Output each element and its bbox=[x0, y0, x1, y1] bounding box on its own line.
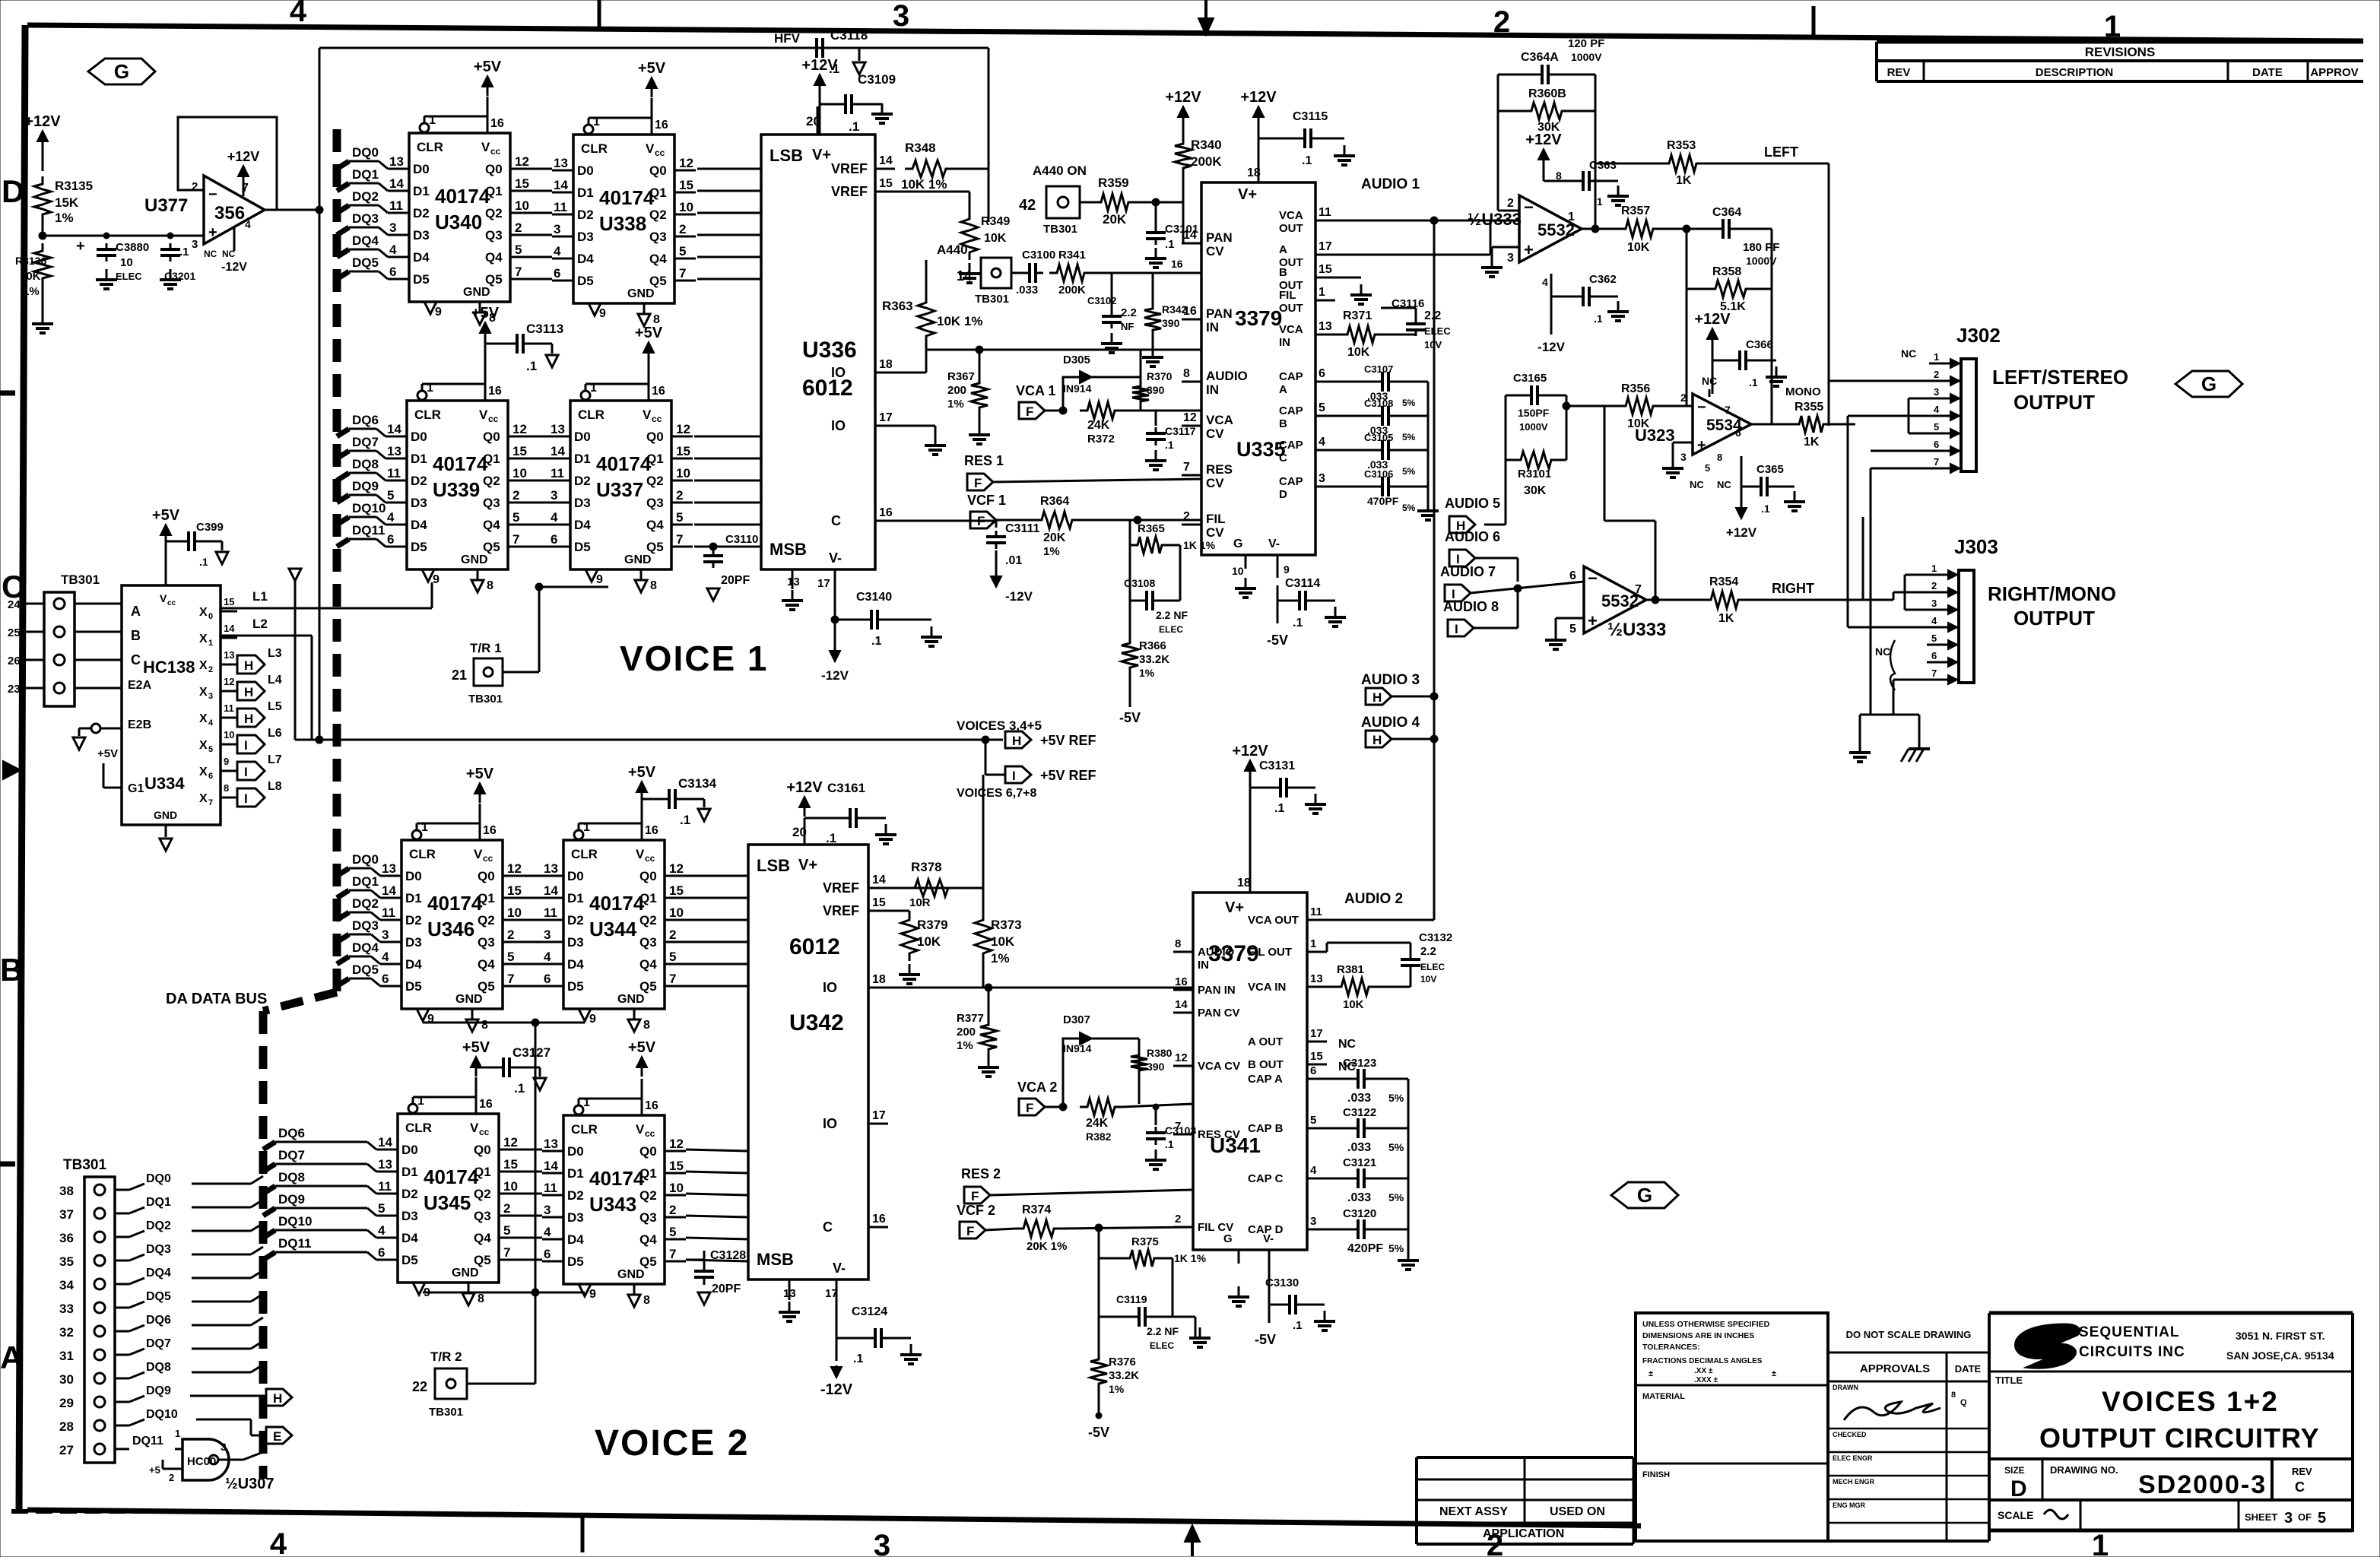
svg-text:FINISH: FINISH bbox=[1642, 1470, 1670, 1479]
svg-text:-12V: -12V bbox=[821, 668, 849, 683]
svg-text:13: 13 bbox=[382, 861, 396, 876]
svg-text:.01: .01 bbox=[1005, 554, 1022, 567]
svg-text:VREF: VREF bbox=[831, 161, 868, 176]
svg-text:9: 9 bbox=[435, 306, 442, 319]
power +5V U343 bbox=[628, 1039, 656, 1077]
svg-text:R377: R377 bbox=[957, 1012, 984, 1025]
svg-text:5: 5 bbox=[1310, 1114, 1316, 1127]
svg-text:D3: D3 bbox=[567, 935, 584, 950]
svg-text:Q4: Q4 bbox=[639, 957, 657, 972]
svg-text:14: 14 bbox=[378, 1135, 392, 1150]
svg-text:10K: 10K bbox=[917, 934, 941, 949]
svg-text:D0: D0 bbox=[405, 869, 422, 883]
wire DQ10 to flag E bbox=[115, 1408, 292, 1444]
svg-text:R349: R349 bbox=[981, 215, 1010, 228]
svg-text:6: 6 bbox=[551, 532, 557, 547]
capacitor C3161 .1 bbox=[804, 781, 896, 845]
svg-text:R355: R355 bbox=[1795, 401, 1823, 414]
flag VCF 1 bbox=[967, 493, 1034, 528]
power +5V U346 bbox=[466, 766, 494, 803]
svg-text:RES 2: RES 2 bbox=[961, 1166, 1001, 1181]
centerline arrow top bbox=[1198, 0, 1214, 35]
svg-text:NC: NC bbox=[1690, 479, 1704, 490]
resistor R378 10R bbox=[888, 860, 983, 909]
svg-text:U335: U335 bbox=[1236, 438, 1286, 461]
svg-text:18: 18 bbox=[1237, 877, 1251, 889]
capacitor C3128 20PF bbox=[686, 1249, 746, 1305]
flag AUDIO 3 bbox=[1361, 672, 1438, 705]
svg-text:5: 5 bbox=[1319, 401, 1325, 414]
svg-text:DQ5: DQ5 bbox=[352, 962, 379, 977]
power +5V U344 bbox=[628, 764, 656, 804]
power +12V U333a bbox=[1525, 132, 1562, 182]
svg-text:NC: NC bbox=[204, 249, 217, 259]
svg-text:±: ± bbox=[1772, 1369, 1776, 1378]
svg-text:1: 1 bbox=[1319, 286, 1325, 299]
svg-text:D2: D2 bbox=[401, 1187, 418, 1201]
svg-text:A OUT: A OUT bbox=[1248, 1035, 1283, 1048]
svg-text:GND: GND bbox=[452, 1267, 479, 1280]
svg-text:1: 1 bbox=[590, 382, 597, 395]
svg-text:3: 3 bbox=[389, 220, 396, 235]
svg-text:CLR: CLR bbox=[578, 407, 605, 422]
svg-text:VOICES 1+2: VOICES 1+2 bbox=[2102, 1386, 2279, 1417]
svg-text:21: 21 bbox=[452, 668, 467, 683]
svg-text:Q4: Q4 bbox=[478, 957, 495, 972]
label LEFT/STEREO OUTPUT bbox=[1992, 366, 2128, 414]
wires output bundle to J302 bbox=[1829, 381, 1929, 715]
svg-text:AUDIO: AUDIO bbox=[1206, 369, 1248, 383]
svg-text:CV: CV bbox=[1206, 476, 1224, 490]
svg-text:T/R 1: T/R 1 bbox=[470, 641, 502, 655]
svg-text:11: 11 bbox=[378, 1179, 392, 1194]
svg-text:CLR: CLR bbox=[409, 847, 436, 861]
svg-text:R375: R375 bbox=[1131, 1235, 1159, 1248]
svg-text:14: 14 bbox=[554, 178, 568, 192]
svg-text:DQ10: DQ10 bbox=[146, 1408, 178, 1421]
power +5V U334 bbox=[152, 507, 180, 564]
svg-text:16: 16 bbox=[645, 824, 658, 837]
svg-text:4: 4 bbox=[389, 243, 397, 257]
IC U340 hex latch 40174 bbox=[388, 97, 532, 325]
svg-text:NC: NC bbox=[1717, 479, 1731, 490]
svg-text:.1: .1 bbox=[1165, 1138, 1174, 1150]
capacitor C3880 10 ELEC bbox=[76, 238, 149, 289]
flag VOICES 6 7 8 bbox=[957, 766, 1096, 800]
wire U377 feedback box bbox=[178, 117, 277, 210]
svg-text:G: G bbox=[1637, 1184, 1652, 1207]
svg-text:33.2K: 33.2K bbox=[1109, 1369, 1139, 1382]
IC U334 decoder HC138 bbox=[122, 564, 237, 851]
svg-text:R354: R354 bbox=[1709, 576, 1738, 588]
svg-text:1: 1 bbox=[208, 639, 213, 648]
resistor R370 390 bbox=[1132, 370, 1173, 409]
svg-text:APPROVALS: APPROVALS bbox=[1860, 1362, 1930, 1375]
svg-text:cc: cc bbox=[167, 599, 176, 607]
svg-text:5: 5 bbox=[515, 243, 522, 257]
capacitor C3110 20PF bbox=[703, 533, 758, 601]
svg-text:12: 12 bbox=[512, 422, 527, 436]
svg-text:10K: 10K bbox=[1627, 241, 1650, 254]
capacitor C364 180PF bbox=[1687, 206, 1779, 289]
svg-text:GND: GND bbox=[627, 287, 655, 300]
capacitor C365 .1 bbox=[1741, 456, 1805, 515]
svg-text:1: 1 bbox=[1568, 211, 1575, 224]
svg-text:9: 9 bbox=[599, 307, 606, 320]
svg-text:4: 4 bbox=[245, 218, 251, 230]
svg-text:VREF: VREF bbox=[823, 903, 859, 918]
svg-text:D1: D1 bbox=[411, 452, 427, 466]
resistor R354 1K bbox=[1703, 517, 1863, 625]
svg-text:R379: R379 bbox=[917, 918, 948, 932]
svg-text:DQ3: DQ3 bbox=[352, 211, 379, 226]
svg-text:F: F bbox=[966, 1224, 974, 1238]
svg-text:Q: Q bbox=[1960, 1398, 1967, 1407]
svg-text:DQ2: DQ2 bbox=[352, 189, 379, 204]
ground U342 pin13 bbox=[779, 1302, 800, 1321]
svg-text:2.2 NF: 2.2 NF bbox=[1156, 609, 1188, 621]
svg-text:2.2 NF: 2.2 NF bbox=[1147, 1325, 1179, 1337]
svg-text:E2A: E2A bbox=[128, 679, 152, 692]
zone label C bbox=[2, 569, 24, 604]
svg-text:cc: cc bbox=[490, 146, 501, 157]
svg-text:2: 2 bbox=[503, 1201, 510, 1216]
svg-text:DQ9: DQ9 bbox=[146, 1384, 171, 1397]
svg-text:10V: 10V bbox=[1420, 974, 1436, 985]
svg-text:10: 10 bbox=[512, 466, 527, 480]
svg-text:NEXT ASSY: NEXT ASSY bbox=[1439, 1505, 1508, 1518]
label NC U323 top bbox=[1702, 375, 1717, 397]
svg-text:CHECKED: CHECKED bbox=[1833, 1431, 1867, 1438]
svg-text:DQ0: DQ0 bbox=[146, 1172, 171, 1185]
svg-text:VCA CV: VCA CV bbox=[1198, 1060, 1240, 1073]
flag VCF 2 bbox=[957, 1203, 1016, 1238]
svg-text:+5V: +5V bbox=[97, 747, 118, 760]
svg-text:G1: G1 bbox=[128, 782, 144, 795]
svg-text:1: 1 bbox=[1934, 351, 1939, 363]
power +5V U337 bbox=[635, 325, 663, 364]
label DQ data bus bbox=[166, 991, 267, 1007]
svg-text:VCA: VCA bbox=[1279, 209, 1303, 222]
svg-text:CAP C: CAP C bbox=[1248, 1172, 1284, 1185]
svg-text:VCF 2: VCF 2 bbox=[957, 1203, 995, 1218]
svg-text:16: 16 bbox=[488, 385, 502, 398]
svg-text:12: 12 bbox=[679, 156, 693, 170]
svg-text:SAN JOSE,CA. 95134: SAN JOSE,CA. 95134 bbox=[2226, 1349, 2334, 1362]
svg-text:R342: R342 bbox=[1162, 303, 1188, 316]
terminal A440 ON bbox=[1019, 163, 1093, 236]
svg-text:H: H bbox=[244, 712, 253, 726]
svg-text:C365: C365 bbox=[1756, 463, 1784, 476]
svg-text:1K: 1K bbox=[1804, 436, 1820, 449]
capacitor C3114 .1 bbox=[1277, 577, 1346, 629]
svg-text:5: 5 bbox=[676, 510, 683, 525]
wire U333a feedback bbox=[1498, 75, 1595, 229]
svg-text:5: 5 bbox=[208, 745, 213, 754]
svg-text:C3121: C3121 bbox=[1343, 1156, 1376, 1169]
svg-text:V: V bbox=[636, 847, 645, 861]
svg-text:4: 4 bbox=[1310, 1164, 1317, 1177]
svg-text:2: 2 bbox=[507, 928, 514, 942]
svg-text:AUDIO 5: AUDIO 5 bbox=[1445, 496, 1500, 511]
svg-text:7: 7 bbox=[512, 532, 519, 547]
svg-text:6: 6 bbox=[1735, 427, 1741, 439]
svg-text:DATE: DATE bbox=[1955, 1363, 1982, 1375]
svg-text:15K: 15K bbox=[55, 195, 79, 210]
svg-text:VCA IN: VCA IN bbox=[1248, 981, 1286, 994]
svg-text:4: 4 bbox=[290, 0, 307, 28]
svg-text:CIRCUITS INC: CIRCUITS INC bbox=[2079, 1344, 2185, 1360]
svg-text:.XXX ±: .XXX ± bbox=[1694, 1376, 1718, 1384]
svg-text:V-: V- bbox=[1268, 537, 1280, 550]
svg-text:470PF: 470PF bbox=[1367, 495, 1399, 507]
svg-text:U342: U342 bbox=[789, 1010, 844, 1035]
svg-text:REV: REV bbox=[2292, 1466, 2312, 1477]
IC U343 hex latch 40174 bbox=[542, 1079, 686, 1307]
power +12V U341 bbox=[1232, 743, 1268, 871]
resistor R375 1K 1% bbox=[1099, 1228, 1207, 1317]
zone label top 4 bbox=[290, 0, 307, 28]
svg-text:2: 2 bbox=[1934, 369, 1939, 380]
svg-text:cc: cc bbox=[655, 147, 665, 158]
svg-text:VCA 2: VCA 2 bbox=[1017, 1080, 1057, 1095]
svg-text:Q3: Q3 bbox=[646, 496, 664, 510]
svg-text:C3165: C3165 bbox=[1513, 372, 1547, 385]
svg-text:Q4: Q4 bbox=[474, 1231, 491, 1245]
svg-text:.1: .1 bbox=[1165, 439, 1174, 451]
svg-text:3: 3 bbox=[382, 928, 389, 942]
earth ground J303 bbox=[1893, 715, 1930, 762]
svg-text:14: 14 bbox=[544, 1159, 558, 1173]
svg-text:13: 13 bbox=[1310, 972, 1323, 985]
svg-text:.1: .1 bbox=[1165, 238, 1175, 251]
svg-text:15: 15 bbox=[512, 444, 527, 458]
svg-text:ENG MGR: ENG MGR bbox=[1833, 1502, 1866, 1509]
svg-text:1000V: 1000V bbox=[1519, 421, 1548, 433]
svg-text:R363: R363 bbox=[882, 299, 913, 313]
svg-text:.1: .1 bbox=[1594, 312, 1603, 325]
svg-text:C3134: C3134 bbox=[678, 776, 717, 791]
svg-text:17: 17 bbox=[872, 1109, 886, 1122]
svg-text:.1: .1 bbox=[514, 1081, 525, 1096]
label RIGHT/MONO OUTPUT bbox=[1988, 582, 2116, 629]
svg-text:J303: J303 bbox=[1954, 535, 1998, 558]
svg-text:+5V REF: +5V REF bbox=[1040, 768, 1096, 783]
wire VREF node bbox=[954, 48, 988, 222]
svg-text:15: 15 bbox=[515, 176, 529, 191]
svg-text:4: 4 bbox=[1542, 276, 1548, 288]
zone label bottom 1 bbox=[2092, 1529, 2109, 1557]
capacitor C399 .1 bbox=[166, 521, 228, 568]
svg-text:D3: D3 bbox=[405, 935, 422, 950]
svg-text:TB301: TB301 bbox=[429, 1406, 463, 1419]
svg-text:.1: .1 bbox=[1274, 802, 1284, 815]
svg-text:DQ0: DQ0 bbox=[352, 145, 379, 160]
svg-text:.033: .033 bbox=[1016, 284, 1038, 296]
svg-text:Q2: Q2 bbox=[639, 913, 657, 928]
svg-text:40174: 40174 bbox=[435, 185, 490, 208]
svg-text:J302: J302 bbox=[1956, 324, 2001, 347]
svg-text:C3107: C3107 bbox=[1364, 363, 1393, 375]
zone label top 1 bbox=[2104, 10, 2121, 43]
DQ data bus lower segment bbox=[259, 1011, 268, 1479]
svg-text:15: 15 bbox=[503, 1157, 518, 1172]
svg-text:D4: D4 bbox=[577, 252, 594, 266]
svg-text:40174: 40174 bbox=[589, 1167, 645, 1190]
wires DQ0-DQ8 to data bus bbox=[115, 1172, 263, 1378]
svg-text:D0: D0 bbox=[567, 869, 584, 883]
svg-text:D5: D5 bbox=[574, 540, 591, 554]
svg-text:V: V bbox=[474, 847, 483, 861]
svg-text:+5V: +5V bbox=[628, 1039, 656, 1056]
svg-text:1K: 1K bbox=[1718, 612, 1734, 625]
svg-text:DQ7: DQ7 bbox=[278, 1148, 305, 1162]
resistor R380 390 bbox=[1131, 1047, 1173, 1104]
svg-text:MSB: MSB bbox=[757, 1250, 794, 1269]
svg-text:12: 12 bbox=[503, 1135, 518, 1150]
svg-text:C: C bbox=[831, 513, 841, 528]
svg-text:13: 13 bbox=[387, 444, 401, 458]
wire U377 out bbox=[277, 206, 323, 214]
svg-text:C364A: C364A bbox=[1521, 51, 1559, 64]
zone label D bbox=[2, 173, 24, 209]
capacitor C3132 2.2 ELEC bbox=[1327, 931, 1452, 985]
off-page flag G lower bbox=[1611, 1182, 1678, 1208]
svg-text:.1: .1 bbox=[849, 119, 859, 134]
svg-text:AUDIO 4: AUDIO 4 bbox=[1361, 715, 1420, 731]
op-amp U333a 5532 bbox=[1468, 195, 1582, 265]
svg-text:AUDIO 2: AUDIO 2 bbox=[1344, 891, 1403, 907]
svg-text:6: 6 bbox=[1569, 569, 1576, 582]
svg-text:.XX ±: .XX ± bbox=[1694, 1367, 1713, 1375]
svg-text:1: 1 bbox=[421, 821, 428, 834]
svg-text:MSB: MSB bbox=[770, 540, 807, 559]
svg-text:U340: U340 bbox=[435, 211, 482, 233]
svg-text:DQ9: DQ9 bbox=[278, 1192, 305, 1207]
svg-text:18: 18 bbox=[879, 358, 893, 371]
svg-text:13: 13 bbox=[378, 1157, 392, 1172]
svg-text:ELEC: ELEC bbox=[1150, 1340, 1174, 1351]
ground J303 bbox=[1849, 715, 1871, 762]
svg-text:6: 6 bbox=[554, 266, 560, 281]
capacitor C3116 2.2 ELEC bbox=[1381, 297, 1451, 350]
svg-text:13: 13 bbox=[544, 1137, 558, 1151]
svg-text:22: 22 bbox=[412, 1379, 427, 1394]
svg-text:Q3: Q3 bbox=[478, 935, 495, 950]
power +5V U345 bbox=[462, 1039, 490, 1077]
svg-text:Q2: Q2 bbox=[646, 474, 664, 488]
svg-text:TB301: TB301 bbox=[63, 1157, 106, 1173]
svg-text:C3118: C3118 bbox=[830, 28, 868, 43]
svg-text:CLR: CLR bbox=[405, 1121, 432, 1135]
svg-text:D4: D4 bbox=[401, 1231, 418, 1245]
svg-text:I: I bbox=[244, 791, 248, 806]
flag RES 2 bbox=[961, 1166, 1193, 1203]
resistor R340 200K bbox=[1165, 89, 1222, 202]
svg-text:390: 390 bbox=[1147, 384, 1165, 396]
resistor R349 10K bbox=[895, 192, 1010, 283]
svg-text:16: 16 bbox=[655, 119, 668, 132]
svg-text:V: V bbox=[636, 1122, 645, 1137]
power -5V U335 bbox=[1267, 585, 1288, 648]
svg-text:IO: IO bbox=[831, 365, 846, 380]
svg-text:H: H bbox=[273, 1391, 282, 1406]
svg-text:DQ6: DQ6 bbox=[352, 413, 379, 427]
svg-text:OUT: OUT bbox=[1279, 302, 1303, 315]
svg-text:6: 6 bbox=[382, 972, 389, 986]
left border arrow bbox=[3, 761, 21, 779]
svg-text:3: 3 bbox=[2284, 1510, 2293, 1527]
svg-text:Q2: Q2 bbox=[485, 206, 503, 220]
flag AUDIO 8 bbox=[1443, 588, 1518, 636]
svg-text:DQ5: DQ5 bbox=[352, 255, 379, 270]
stray dashed mark bottom left bbox=[11, 1509, 205, 1514]
svg-text:C3120: C3120 bbox=[1343, 1207, 1376, 1220]
svg-text:1%: 1% bbox=[1139, 667, 1155, 679]
svg-text:7: 7 bbox=[1635, 583, 1642, 596]
label AUDIO 2 bbox=[1344, 891, 1403, 907]
svg-text:Q0: Q0 bbox=[639, 1144, 657, 1159]
svg-text:24K: 24K bbox=[1086, 1117, 1109, 1130]
svg-text:14: 14 bbox=[544, 883, 558, 898]
svg-text:8: 8 bbox=[1175, 937, 1181, 950]
svg-text:DQ1: DQ1 bbox=[352, 874, 379, 889]
svg-text:SIZE: SIZE bbox=[2004, 1465, 2025, 1476]
svg-text:9: 9 bbox=[596, 573, 603, 586]
svg-text:R372: R372 bbox=[1087, 433, 1115, 446]
svg-text:-12V: -12V bbox=[1537, 340, 1566, 354]
svg-text:I: I bbox=[1455, 622, 1458, 636]
flag RES 1 bbox=[964, 453, 1201, 490]
svg-text:R340: R340 bbox=[1191, 138, 1222, 152]
capacitor C3165 150PF bbox=[1506, 372, 1570, 460]
svg-text:37: 37 bbox=[59, 1207, 74, 1222]
svg-text:B: B bbox=[0, 952, 23, 988]
svg-text:V: V bbox=[479, 407, 488, 422]
svg-text:15: 15 bbox=[679, 178, 693, 192]
svg-text:D1: D1 bbox=[401, 1165, 418, 1179]
svg-text:40174: 40174 bbox=[589, 892, 645, 915]
centerline arrow bottom bbox=[1185, 1525, 1200, 1556]
ground U341 G pin bbox=[1228, 1286, 1249, 1306]
ground U335 G pin bbox=[1235, 578, 1256, 598]
svg-text:Q2: Q2 bbox=[474, 1187, 491, 1201]
power -5V R366 bbox=[1119, 699, 1141, 725]
svg-text:4: 4 bbox=[1934, 404, 1940, 415]
svg-text:C3131: C3131 bbox=[1259, 759, 1295, 772]
svg-text:DIMENSIONS ARE IN INCHES: DIMENSIONS ARE IN INCHES bbox=[1642, 1331, 1754, 1340]
svg-text:1000V: 1000V bbox=[1746, 255, 1777, 267]
svg-text:11: 11 bbox=[382, 905, 395, 920]
svg-text:Q2: Q2 bbox=[639, 1188, 657, 1203]
svg-text:17: 17 bbox=[879, 411, 893, 424]
svg-text:AUDIO: AUDIO bbox=[1198, 946, 1235, 959]
resistor R3101 30K bbox=[1506, 452, 1566, 497]
svg-text:Q5: Q5 bbox=[639, 1254, 657, 1269]
svg-text:+5V: +5V bbox=[462, 1039, 490, 1056]
svg-text:D5: D5 bbox=[401, 1253, 418, 1267]
svg-text:DQ5: DQ5 bbox=[146, 1290, 171, 1303]
svg-text:Q4: Q4 bbox=[639, 1232, 657, 1247]
svg-text:U339: U339 bbox=[433, 478, 480, 501]
svg-text:R365: R365 bbox=[1138, 522, 1165, 535]
svg-text:X: X bbox=[199, 739, 208, 752]
svg-text:C3115: C3115 bbox=[1293, 110, 1328, 123]
svg-text:U344: U344 bbox=[589, 918, 637, 940]
svg-text:35: 35 bbox=[59, 1254, 74, 1269]
svg-text:6: 6 bbox=[389, 265, 396, 279]
svg-text:DQ11: DQ11 bbox=[132, 1435, 163, 1448]
